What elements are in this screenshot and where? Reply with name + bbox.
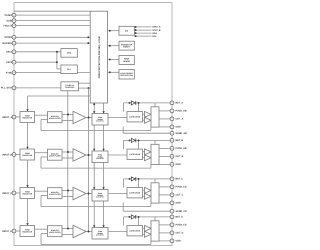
wire bootstrap left drop D: [123, 217, 125, 226]
svg-text:LOOP FILTER: LOOP FILTER: [49, 193, 61, 196]
wire gate B to low driver: [143, 157, 145, 159]
svg-text:OSC: OSC: [67, 52, 72, 55]
pin SGND_CD: [170, 209, 187, 213]
wire pin SYNC: [14, 72, 90, 74]
wire gate B to high driver: [143, 151, 145, 153]
svg-text:GATE DRIVE: GATE DRIVE: [129, 229, 141, 232]
arrow into register B: [26, 147, 28, 149]
bus timing vertical 1: [93, 103, 95, 228]
block load short protection: [119, 70, 134, 80]
block temp sense: [119, 56, 134, 65]
pin PVDD_AB row B: [170, 147, 187, 151]
wire startup to logic upper: [79, 82, 91, 84]
svg-text:STAT_A: STAT_A: [152, 26, 161, 29]
wire register chain A: [27, 123, 29, 148]
wire SGND_CD: [123, 203, 172, 212]
wire GND C: [159, 202, 172, 204]
block input register A: [20, 112, 35, 123]
block input register D: [20, 226, 35, 237]
wire power stage top to bootstrap B: [154, 140, 156, 144]
junction dot bootstrap a A: [129, 102, 131, 104]
pin OUT_C row C: [170, 193, 184, 197]
wire PVDD C: [159, 186, 172, 188]
driver low A: [145, 117, 152, 123]
pin GND row C: [170, 201, 181, 205]
junction dot bootstrap b A: [138, 102, 140, 104]
wire filter A out upper: [62, 114, 73, 116]
wire pin MODSEL: [14, 42, 90, 44]
wire I2C STAT_B: [134, 29, 151, 31]
svg-text:GAIN: GAIN: [6, 19, 12, 22]
block timing control B: [92, 151, 108, 163]
wire feedback D: [41, 234, 151, 245]
junction dot bootstrap b C: [138, 178, 140, 180]
svg-text:CONTROL: CONTROL: [96, 196, 104, 199]
svg-text:I2C: I2C: [125, 29, 129, 32]
wire register chain C: [27, 199, 29, 225]
wire timing D to gate drive: [108, 231, 127, 233]
wire bootstrap left drop C: [123, 179, 125, 188]
arrow timing B left bus: [93, 149, 95, 151]
svg-text:PVDD_AB: PVDD_AB: [176, 147, 187, 150]
wire input pin C: [14, 192, 20, 194]
block power-up reset: [119, 41, 134, 50]
svg-text:OSC1: OSC1: [6, 51, 13, 54]
pin INPUT_A: [2, 115, 16, 119]
svg-text:MODSEL: MODSEL: [2, 42, 12, 45]
wire GND D: [159, 240, 172, 242]
block analog loop filter B: [48, 149, 63, 160]
wire comparator C out: [86, 193, 92, 195]
pin OUT_D row D: [170, 231, 184, 235]
svg-text:RESET: RESET: [123, 46, 130, 49]
wire bootstrap B: [124, 139, 173, 141]
wire pin OSC2: [14, 61, 57, 63]
pin GND row A: [170, 125, 181, 129]
wire logic to I2C block: [108, 30, 120, 32]
wire comparator D out: [86, 231, 92, 233]
svg-text:REGISTER: REGISTER: [22, 117, 32, 120]
block timing control D: [92, 228, 108, 240]
block power stage D: [151, 221, 159, 241]
svg-text:OUT_A: OUT_A: [176, 118, 184, 121]
svg-text:BST_B: BST_B: [176, 139, 184, 142]
wire bootstrap C: [124, 178, 173, 180]
arrow into register D: [26, 223, 28, 225]
wire gate A to low driver: [143, 119, 145, 121]
svg-text:INPUT_D: INPUT_D: [2, 230, 12, 233]
svg-text:GATE DRIVE: GATE DRIVE: [129, 153, 141, 156]
svg-text:BST_C: BST_C: [176, 178, 184, 181]
block gate drive B: [127, 149, 143, 159]
arrow into register C: [26, 185, 28, 187]
pin GND row B: [170, 163, 181, 167]
block gate drive A: [127, 112, 143, 122]
bus timing vertical 2: [103, 103, 105, 228]
junction dot OSC1: [56, 51, 58, 53]
wire input pin B: [14, 154, 20, 156]
wire GND B: [159, 163, 172, 165]
wire filter C out lower: [62, 196, 73, 198]
svg-text:BST_D: BST_D: [176, 216, 184, 219]
svg-text:PLIMIT: PLIMIT: [5, 14, 13, 17]
net label STAT_B: [152, 29, 161, 32]
block oscillator: [61, 49, 77, 58]
bus clock vertical: [88, 88, 90, 231]
net label SCL: [152, 35, 157, 38]
wire PVDD A: [159, 110, 172, 112]
wire feedback A: [41, 120, 151, 131]
svg-text:STDBY: STDBY: [4, 36, 12, 39]
arrow timing B right bus: [102, 149, 104, 151]
arrow timing C right bus: [102, 187, 104, 189]
wire pin FAULTZ: [14, 25, 90, 27]
wire register B to filter: [35, 152, 48, 154]
block power stage A: [151, 107, 159, 127]
wire register chain B: [27, 160, 29, 186]
wire OUT C: [159, 194, 172, 196]
svg-text:GND: GND: [176, 240, 181, 243]
comparator D: [73, 225, 86, 237]
block power stage B: [151, 144, 159, 164]
wire logic to protection: [108, 71, 120, 73]
arrow timing C left bus: [93, 187, 95, 189]
wire power stage top to bootstrap C: [154, 179, 156, 183]
wire filter D out upper: [62, 228, 73, 230]
block startup control: [61, 82, 79, 91]
wire osc bracket vertical: [56, 52, 58, 69]
wire gate C to high driver: [143, 189, 145, 191]
wire filter D out lower: [62, 234, 73, 236]
svg-text:SENSE: SENSE: [123, 60, 130, 63]
pin INPUT_D: [2, 229, 16, 233]
svg-text:PWM PROTECTION AND SEQ. LOGIC: PWM PROTECTION AND SEQ. LOGIC: [98, 35, 101, 78]
svg-text:PVDD_CD: PVDD_CD: [176, 224, 187, 227]
svg-text:REGISTER: REGISTER: [22, 193, 32, 196]
wire timing C to gate drive: [108, 193, 127, 195]
svg-text:LOOP FILTER: LOOP FILTER: [49, 117, 61, 120]
wire input pin D: [14, 230, 20, 232]
driver high C: [145, 187, 152, 193]
diode bootstrap D: [131, 215, 136, 219]
arrow timing A left bus: [93, 111, 95, 113]
wire pin PLIMIT: [14, 14, 90, 16]
svg-text:LOOP FILTER: LOOP FILTER: [49, 154, 61, 157]
wire bootstrap left drop B: [123, 140, 125, 149]
svg-text:PLL_STAT: PLL_STAT: [1, 87, 13, 90]
pin OSC2: [6, 60, 16, 64]
pin STDBY: [4, 35, 15, 39]
wire gate D to high driver: [143, 227, 145, 229]
wire gate A to high driver: [143, 113, 145, 115]
wire register C to filter: [35, 190, 48, 192]
driver low B: [145, 155, 152, 161]
arrow timing A right bus: [102, 111, 104, 113]
junction dot bootstrap a C: [129, 178, 131, 180]
svg-text:REGISTER: REGISTER: [22, 231, 32, 234]
svg-text:OUT_D: OUT_D: [176, 232, 184, 235]
block analog loop filter C: [48, 188, 63, 199]
pin PLIMIT: [5, 13, 16, 17]
wire power stage top to bootstrap D: [154, 217, 156, 221]
svg-text:INPUT_B: INPUT_B: [2, 153, 12, 156]
wire filter A out lower: [62, 120, 73, 122]
pin PLL_STAT: [1, 86, 16, 90]
block PLL: [61, 65, 77, 74]
wire filter C out upper: [62, 190, 73, 192]
wire comparator B out: [86, 154, 92, 156]
block analog loop filter D: [48, 226, 63, 237]
wire I2C SDA: [134, 32, 151, 34]
pin BST_A row A: [170, 101, 183, 105]
wire SGND_AB: [123, 127, 172, 134]
block analog loop filter A: [48, 112, 63, 123]
svg-text:INPUT_A: INPUT_A: [2, 116, 12, 119]
wire pin OSC1: [14, 51, 61, 53]
diode bootstrap A: [131, 101, 136, 105]
wire startup to logic lower: [79, 87, 91, 89]
svg-text:GND: GND: [176, 202, 181, 205]
pin GAIN: [6, 19, 15, 23]
svg-text:PROTECTION: PROTECTION: [120, 74, 133, 77]
wire bootstrap right drop B: [138, 140, 140, 149]
pin BST_B row B: [170, 139, 183, 143]
arrow timing D right bus: [102, 225, 104, 227]
arrow timing D left bus: [93, 225, 95, 227]
svg-text:PVDD_CD: PVDD_CD: [176, 186, 187, 189]
pin FAULTZ: [4, 24, 16, 28]
wire GND A: [159, 126, 172, 128]
pin INPUT_B: [2, 153, 16, 157]
driver high A: [145, 111, 152, 117]
wire gate D to low driver: [143, 233, 145, 235]
pin PVDD_AB row A: [170, 109, 187, 113]
svg-text:OUT_B: OUT_B: [176, 155, 184, 158]
wire logic to register chain: [28, 96, 91, 110]
pin OUT_B row B: [170, 155, 184, 159]
junction dot bootstrap b D: [138, 216, 140, 218]
pin OSC1: [6, 50, 16, 54]
wire input pin A: [14, 116, 20, 118]
svg-text:SCL: SCL: [152, 35, 157, 38]
wire bootstrap D: [124, 216, 173, 218]
wire pin GAIN: [14, 20, 90, 22]
svg-text:GND: GND: [176, 126, 181, 129]
wire filter B out lower: [62, 157, 73, 159]
wire OUT A: [159, 118, 172, 120]
wire PVDD B: [159, 147, 172, 149]
wire register D to filter: [35, 228, 48, 230]
wire register A to filter: [35, 114, 48, 116]
wire power stage top to bootstrap A: [154, 103, 156, 107]
wire PVDD D: [159, 224, 172, 226]
pin PVDD_CD row C: [170, 185, 187, 189]
wire feedback B: [41, 157, 151, 168]
svg-text:CONTROL: CONTROL: [65, 86, 75, 89]
wire bootstrap left drop A: [123, 103, 125, 112]
wire logic to power-up reset: [108, 45, 120, 47]
wire bootstrap A: [124, 102, 173, 104]
driver low D: [145, 231, 152, 237]
svg-text:GATE DRIVE: GATE DRIVE: [129, 191, 141, 194]
pin INPUT_C: [2, 191, 16, 195]
wire OUT B: [159, 155, 172, 157]
wire filter B out upper: [62, 151, 73, 153]
svg-text:STAT_B: STAT_B: [152, 29, 161, 32]
wire I2C SCL: [134, 35, 151, 37]
block timing control C: [92, 190, 108, 202]
junction dot OSC2: [56, 61, 58, 63]
block gate drive D: [127, 226, 143, 236]
chip boundary box: [14, 3, 172, 246]
svg-text:SGND_AB: SGND_AB: [176, 132, 188, 135]
svg-text:PVDD_AB: PVDD_AB: [176, 110, 187, 113]
svg-text:INPUT_C: INPUT_C: [2, 192, 12, 195]
block I2C interface: [119, 26, 134, 35]
junction dot bootstrap b B: [138, 139, 140, 141]
block input register B: [20, 149, 35, 160]
wire bracket to PLL: [57, 68, 61, 70]
block gate drive C: [127, 188, 143, 198]
svg-text:LOOP FILTER: LOOP FILTER: [49, 231, 61, 234]
svg-text:CONTROL: CONTROL: [96, 120, 104, 123]
svg-text:CONTROL: CONTROL: [96, 157, 104, 160]
svg-text:REGISTER: REGISTER: [22, 154, 32, 157]
wire pin STDBY: [14, 36, 90, 38]
wire gate C to low driver: [143, 195, 145, 197]
net label STAT_A: [152, 26, 161, 29]
svg-text:OUT_C: OUT_C: [176, 194, 184, 197]
comparator A: [73, 111, 86, 123]
block timing control A: [92, 114, 108, 126]
svg-text:FAULTZ: FAULTZ: [4, 24, 13, 27]
pin SGND_AB: [170, 131, 187, 135]
net label SDA: [152, 32, 157, 35]
svg-text:GATE DRIVE: GATE DRIVE: [129, 115, 141, 118]
wire I2C STAT_A: [134, 26, 151, 28]
svg-text:OSC2: OSC2: [6, 61, 13, 64]
arrow into register A: [26, 109, 28, 111]
wire OUT D: [159, 232, 172, 234]
svg-text:BST_A: BST_A: [176, 102, 184, 105]
wire logic to temp sense: [108, 58, 120, 60]
pin BST_D row D: [170, 215, 183, 219]
wire bootstrap right drop D: [138, 217, 140, 226]
pin BST_C row C: [170, 177, 183, 181]
junction dot bootstrap a D: [129, 216, 131, 218]
svg-text:SYNC: SYNC: [6, 71, 13, 74]
wire timing B to gate drive: [108, 154, 127, 156]
pin OUT_A row A: [170, 117, 184, 121]
svg-text:GND: GND: [176, 163, 181, 166]
wire bootstrap right drop C: [138, 179, 140, 188]
driver low C: [145, 193, 152, 199]
block input register C: [20, 188, 35, 199]
junction dot MUTE: [87, 42, 89, 44]
wire feedback C: [41, 196, 151, 207]
wire VDD rail to logic block top: [14, 10, 90, 12]
pin SYNC: [6, 71, 16, 75]
svg-text:SDA: SDA: [152, 32, 157, 35]
diode bootstrap C: [131, 177, 136, 181]
pin PVDD_CD row D: [170, 223, 187, 227]
comparator B: [73, 149, 86, 161]
driver high B: [145, 149, 152, 155]
pin GND row D: [170, 239, 181, 243]
driver high D: [145, 225, 152, 231]
wire pin PLL_STAT: [14, 87, 61, 89]
block U1 protection/sequencing logic: [90, 11, 107, 103]
junction dot STBY: [87, 36, 89, 38]
junction dot bootstrap a B: [129, 139, 131, 141]
comparator C: [73, 187, 86, 199]
svg-text:CONTROL: CONTROL: [96, 234, 104, 237]
wire bootstrap right drop A: [138, 103, 140, 112]
wire timing A to gate drive: [108, 117, 127, 119]
bus ramp vertical: [67, 91, 69, 229]
wire comparator A out: [86, 117, 92, 119]
block power stage C: [151, 183, 159, 203]
svg-text:SGND_CD: SGND_CD: [176, 210, 188, 213]
diode bootstrap B: [131, 138, 136, 142]
pin MODSEL: [2, 41, 16, 45]
